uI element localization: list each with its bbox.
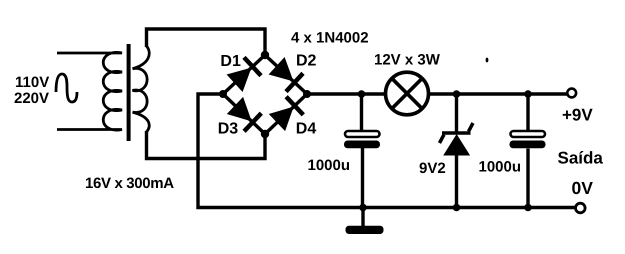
junction capacitor C1 top node <box>358 90 366 98</box>
zener diode 9V2 <box>440 123 474 155</box>
diode D2 <box>265 55 307 94</box>
svg-text:D4: D4 <box>296 121 317 138</box>
terminal +9V <box>567 89 576 98</box>
diode D3 <box>223 94 265 134</box>
wire C1 top lead <box>360 94 363 131</box>
junction zener top node <box>453 90 461 98</box>
svg-text:12V x 3W: 12V x 3W <box>374 52 441 69</box>
wire zener top lead <box>455 94 458 134</box>
node bridge bottom AC2 junction <box>261 130 269 138</box>
svg-text:220V: 220V <box>14 90 49 107</box>
svg-text:9V2: 9V2 <box>419 160 446 177</box>
transformer T1 core <box>127 44 131 141</box>
transformer T1 secondary winding <box>133 46 150 132</box>
svg-text:Saída: Saída <box>558 149 604 168</box>
junction zener bottom node <box>453 204 461 212</box>
svg-text:4 x 1N4002: 4 x 1N4002 <box>291 30 369 47</box>
svg-text:1000u: 1000u <box>479 159 522 176</box>
wire lamp to +9V terminal <box>429 92 568 95</box>
svg-text:D2: D2 <box>296 53 317 70</box>
svg-text:16V x 300mA: 16V x 300mA <box>85 175 174 192</box>
wire C1 bottom lead <box>361 148 364 208</box>
junction capacitor C2 top node <box>524 90 532 98</box>
junction C2 bottom node <box>524 204 532 212</box>
node bridge top AC1 junction <box>261 51 269 59</box>
lamp 12V x 3W <box>386 72 429 115</box>
wire C2 top lead <box>526 94 529 131</box>
stray ink dot <box>486 58 489 63</box>
svg-text:0V: 0V <box>572 178 594 198</box>
wire DC+ rail from bridge to lamp <box>307 92 386 95</box>
capacitor C2 1000u <box>510 131 546 148</box>
wire DC- from bridge left node down to 0V bottom rail <box>198 94 575 208</box>
svg-text:110V: 110V <box>15 74 49 91</box>
diode D1 <box>223 55 265 94</box>
AC source sine symbol <box>56 74 77 102</box>
svg-text:D3: D3 <box>218 121 239 138</box>
wire secondary top to bridge AC1 node <box>147 29 266 55</box>
svg-text:1000u: 1000u <box>308 157 351 174</box>
svg-text:D1: D1 <box>220 53 241 70</box>
junction C1 bottom / ground node <box>359 204 367 212</box>
wire C2 bottom lead <box>526 149 529 208</box>
node bridge left DC- junction <box>219 90 227 98</box>
node bridge right DC+ junction <box>303 90 311 98</box>
terminal 0V <box>576 203 586 213</box>
capacitor C1 1000u <box>344 131 380 148</box>
wire zener bottom lead <box>455 155 458 208</box>
ground <box>346 208 384 235</box>
wire secondary bottom to bridge AC2 node <box>147 131 266 159</box>
wire primary top + transformer T1 primary winding <box>57 52 122 130</box>
diode D4 <box>265 94 307 134</box>
svg-text:+9V: +9V <box>562 106 593 125</box>
